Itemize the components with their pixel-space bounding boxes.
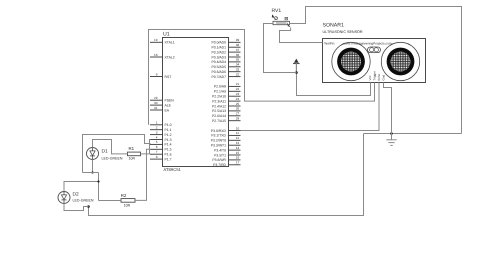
- svg-text:U1: U1: [163, 32, 170, 38]
- svg-text:28: 28: [236, 117, 240, 121]
- pin 26 P2.5/A13 (right stub): [229, 110, 241, 112]
- svg-text:RV1: RV1: [272, 8, 282, 14]
- svg-text:31: 31: [154, 106, 158, 110]
- pin 22 P2.1/A9 (right stub): [229, 90, 241, 92]
- pin 38 P0.1/AD1 (right stub): [229, 46, 241, 48]
- svg-text:7: 7: [156, 150, 158, 154]
- svg-text:AT89C51: AT89C51: [164, 167, 182, 172]
- junction node D2 anode: [97, 180, 99, 182]
- pin 16 P3.6/WR (right stub): [229, 159, 241, 161]
- pin 34 P0.5/AD5 (right stub): [229, 66, 241, 68]
- wire R1 right to P1.3: [141, 140, 151, 154]
- pin 14 P3.4/T0 (right stub): [229, 149, 241, 151]
- svg-text:9: 9: [156, 72, 158, 76]
- svg-text:27: 27: [236, 112, 240, 116]
- svg-text:P3.2/INT0: P3.2/INT0: [211, 139, 226, 143]
- pin 11 P3.1/TXD (right stub): [229, 134, 241, 136]
- svg-text:P2.3/A11: P2.3/A11: [212, 99, 226, 103]
- svg-text:33: 33: [236, 68, 240, 72]
- pin 37 P0.2/AD2 (right stub): [229, 51, 241, 53]
- pin 18 XTAL2 (left stub): [150, 56, 163, 58]
- svg-text:12: 12: [236, 136, 240, 140]
- svg-text:RST: RST: [165, 75, 172, 79]
- svg-text:P1.4: P1.4: [165, 143, 172, 147]
- pin 6 P1.5 (left stub): [150, 148, 163, 150]
- svg-text:D1: D1: [102, 149, 108, 155]
- sensor SONAR1 ultrasonic module body: [323, 39, 426, 83]
- power terminal +5V (arrow): [293, 59, 300, 73]
- svg-text:37: 37: [236, 48, 240, 52]
- pin 29 PSEN (left stub): [150, 99, 163, 101]
- svg-text:10: 10: [236, 126, 240, 130]
- svg-text:R2: R2: [121, 193, 127, 198]
- op U1 microcontroller AT89C51 body: [163, 38, 229, 167]
- sonar right transducer: [381, 42, 419, 80]
- svg-text:10R: 10R: [129, 157, 136, 161]
- svg-text:P3.5/T1: P3.5/T1: [214, 153, 226, 157]
- svg-text:P2.0/A8: P2.0/A8: [214, 85, 226, 89]
- wire P1.0 bridge to sonar Trigger: [149, 30, 375, 125]
- wire node loop to P1.4: [83, 135, 151, 173]
- pin 5 P1.4 (left stub): [150, 143, 163, 145]
- svg-text:P1.1: P1.1: [165, 128, 172, 132]
- pin 23 P2.2/A10 (right stub): [229, 95, 241, 97]
- pin 19 XTAL1 (left stub): [150, 41, 163, 43]
- wire R2 right to P1.5: [135, 149, 151, 200]
- svg-text:P2.5/A13: P2.5/A13: [212, 109, 226, 113]
- pin 35 P0.4/AD4 (right stub): [229, 61, 241, 63]
- junction ground rail: [390, 132, 393, 135]
- wire RV1 wiper to sonar TestPin: [280, 28, 323, 43]
- RV1 adjust icons: [272, 14, 275, 18]
- pin 27 P2.6/A14 (right stub): [229, 115, 241, 117]
- wire ground rail horizontal: [364, 133, 462, 135]
- svg-text:Vcc: Vcc: [368, 75, 372, 81]
- wire D1 anode to R1 left: [93, 140, 128, 154]
- resistor R2 body: [121, 199, 135, 203]
- svg-text:2: 2: [156, 126, 158, 130]
- svg-text:XTAL1: XTAL1: [165, 41, 175, 45]
- svg-text:R1: R1: [129, 146, 135, 151]
- svg-text:26: 26: [236, 107, 240, 111]
- svg-text:P3.0/RXD: P3.0/RXD: [211, 129, 227, 133]
- svg-text:25: 25: [236, 102, 240, 106]
- junction +5V node: [295, 71, 298, 74]
- pin 2 P1.1 (left stub): [150, 129, 163, 131]
- svg-text:22: 22: [236, 87, 240, 91]
- svg-text:P3.3/INT1: P3.3/INT1: [211, 144, 226, 148]
- junction D1 cathode node: [91, 171, 93, 173]
- pin 36 P0.3/AD3 (right stub): [229, 56, 241, 58]
- svg-text:32: 32: [236, 72, 240, 76]
- svg-text:ULTRASONIC SENSOR: ULTRASONIC SENSOR: [323, 30, 363, 34]
- svg-text:ALE: ALE: [165, 103, 172, 107]
- wire D2 cathode to ground junction: [64, 204, 89, 211]
- svg-text:21: 21: [236, 82, 240, 86]
- LED D1: [87, 148, 99, 160]
- svg-text:P2.1/A9: P2.1/A9: [214, 90, 226, 94]
- svg-text:LED-GREEN: LED-GREEN: [73, 198, 94, 202]
- svg-text:P0.4/AD4: P0.4/AD4: [211, 60, 226, 64]
- svg-text:14: 14: [236, 146, 240, 150]
- svg-text:38: 38: [236, 43, 240, 47]
- resistor R1 body: [128, 152, 141, 156]
- svg-text:P0.1/AD1: P0.1/AD1: [211, 46, 226, 50]
- svg-text:34: 34: [236, 63, 240, 67]
- wire node horizontal: [83, 172, 99, 174]
- svg-text:29: 29: [154, 96, 158, 100]
- wire D2 anode up: [64, 182, 99, 192]
- svg-text:P0.3/AD3: P0.3/AD3: [211, 55, 226, 59]
- pin 24 P2.3/A11 (right stub): [229, 100, 241, 102]
- pin 4 P1.3 (left stub): [150, 139, 163, 141]
- svg-text:SONAR1: SONAR1: [323, 23, 344, 29]
- svg-text:35: 35: [236, 58, 240, 62]
- pin 30 ALE (left stub): [150, 104, 163, 106]
- pin 25 P2.4/A12 (right stub): [229, 105, 241, 107]
- svg-text:P1.7: P1.7: [165, 157, 172, 161]
- pin 15 P3.5/T1 (right stub): [229, 154, 241, 156]
- pin 13 P3.3/INT1 (right stub): [229, 144, 241, 146]
- pin 12 P3.2/INT0 (right stub): [229, 139, 241, 141]
- LED D2: [58, 192, 70, 204]
- svg-text:11: 11: [236, 131, 239, 135]
- svg-text:EA: EA: [165, 108, 170, 112]
- pin 8 P1.7 (left stub): [150, 158, 163, 160]
- svg-text:P3.6/WR: P3.6/WR: [212, 158, 226, 162]
- pin 31 EA (left stub): [150, 109, 163, 111]
- svg-text:3: 3: [156, 130, 158, 134]
- pin 28 P2.7/A15 (right stub): [229, 120, 241, 122]
- svg-text:P0.0/AD0: P0.0/AD0: [211, 41, 226, 45]
- svg-text:36: 36: [236, 53, 240, 57]
- sonar left transducer: [332, 42, 370, 80]
- svg-text:P2.7/A15: P2.7/A15: [212, 119, 226, 123]
- svg-text:P1.5: P1.5: [165, 148, 172, 152]
- svg-text:1: 1: [156, 121, 158, 125]
- svg-text:16: 16: [236, 156, 240, 160]
- svg-text:10R: 10R: [124, 204, 131, 208]
- svg-text:P3.1/TXD: P3.1/TXD: [211, 134, 226, 138]
- wire to R2 left: [99, 200, 122, 202]
- pin 7 P1.6 (left stub): [150, 153, 163, 155]
- svg-text:P0.5/AD5: P0.5/AD5: [211, 65, 226, 69]
- wire RV1 left terminal to +5V node: [264, 24, 297, 73]
- svg-text:D2: D2: [73, 191, 79, 197]
- pin 3 P1.2 (left stub): [150, 134, 163, 136]
- pin 21 P2.0/A8 (right stub): [229, 85, 241, 87]
- svg-text:PSEN: PSEN: [165, 99, 175, 103]
- svg-text:P3.4/T0: P3.4/T0: [214, 148, 226, 152]
- svg-text:P1.6: P1.6: [165, 153, 172, 157]
- wire sonar Vcc to +5V rail: [297, 64, 371, 96]
- svg-text:4: 4: [156, 135, 158, 139]
- svg-text:P0.6/AD6: P0.6/AD6: [211, 70, 226, 74]
- potentiometer RV1 body: [273, 21, 291, 27]
- svg-text:24: 24: [236, 97, 240, 101]
- svg-text:P1.2: P1.2: [165, 133, 172, 137]
- pin 1 P1.0 (left stub): [150, 124, 163, 126]
- svg-text:P2.4/A12: P2.4/A12: [212, 104, 226, 108]
- pin 39 P0.0/AD0 (right stub): [229, 41, 241, 43]
- pin 17 P3.7/RD (right stub): [229, 164, 241, 166]
- svg-text:Echo: Echo: [377, 73, 381, 80]
- svg-text:19: 19: [154, 38, 158, 42]
- svg-text:P2.6/A14: P2.6/A14: [212, 114, 226, 118]
- pin 10 P3.0/RXD (right stub): [229, 130, 241, 132]
- wire node vertical D1 cathode to R2: [98, 173, 100, 201]
- svg-text:6: 6: [156, 145, 158, 149]
- wire sonar Gnd pin to ground: [384, 83, 392, 134]
- wire sonar Echo to P3.0/RXD: [241, 83, 380, 131]
- svg-text:P3.7/RD: P3.7/RD: [213, 163, 226, 167]
- pin 32 P0.7/AD7 (right stub): [229, 76, 241, 78]
- svg-text:P0.7/AD7: P0.7/AD7: [211, 75, 226, 79]
- svg-text:17: 17: [236, 161, 240, 165]
- svg-text:23: 23: [236, 92, 240, 96]
- sonar crystal oscillator: [368, 47, 381, 53]
- svg-text:XTAL2: XTAL2: [165, 55, 175, 59]
- svg-text:P1.3: P1.3: [165, 138, 172, 142]
- svg-text:Gnd: Gnd: [382, 74, 386, 80]
- svg-text:18: 18: [154, 53, 158, 57]
- svg-text:39: 39: [236, 38, 240, 42]
- wire D1 cathode down: [92, 160, 94, 173]
- ground symbol: [386, 134, 396, 146]
- svg-text:5: 5: [156, 140, 158, 144]
- pin 33 P0.6/AD6 (right stub): [229, 71, 241, 73]
- svg-text:15: 15: [236, 151, 240, 155]
- svg-text:TestPin: TestPin: [324, 42, 335, 46]
- wire RV1 right terminal top loop to gnd rail: [290, 7, 462, 134]
- svg-text:P0.2/AD2: P0.2/AD2: [211, 50, 226, 54]
- wire ground rail bottom loop: [89, 134, 364, 216]
- svg-text:30: 30: [154, 101, 158, 105]
- svg-text:8: 8: [156, 155, 158, 159]
- pin 9 RST (left stub): [150, 76, 163, 78]
- svg-text:P1.0: P1.0: [165, 123, 172, 127]
- junction D2 cathode to ground: [87, 205, 90, 208]
- svg-text:Trigger: Trigger: [373, 71, 377, 80]
- svg-text:P2.2/A10: P2.2/A10: [212, 95, 226, 99]
- svg-text:13: 13: [236, 141, 240, 145]
- svg-text:LED-GREEN: LED-GREEN: [102, 156, 123, 160]
